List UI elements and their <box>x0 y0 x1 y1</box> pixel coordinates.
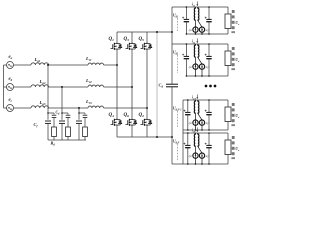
junction top rail to dc link <box>171 31 173 33</box>
svg-text:Uo: Uo <box>235 58 240 63</box>
wire B: Lg2 to node b <box>48 86 88 88</box>
svg-text:(u: (u <box>189 28 192 32</box>
dc bus bottom rail <box>117 136 172 138</box>
module SMN switch circle right <box>198 147 202 153</box>
svg-text:Rd: Rd <box>51 141 56 147</box>
svg-text:Cd: Cd <box>159 83 164 89</box>
wire B: Lr2 to bridge leg2 <box>104 86 132 88</box>
load text block SM2 <box>231 47 235 70</box>
svg-text:(u: (u <box>189 65 192 69</box>
svg-text:(u: (u <box>189 154 192 158</box>
load text block SM1 <box>231 10 235 33</box>
junction mid-bottom <box>156 136 158 138</box>
node b junction <box>61 86 63 88</box>
svg-text:Ud2: Ud2 <box>173 51 179 56</box>
inductor Lg1 <box>31 63 49 65</box>
svg-text:Ud1: Ud1 <box>173 14 179 19</box>
wire: damping branch tee 1 <box>48 112 54 114</box>
module SMN-1 output capacitor <box>208 100 210 112</box>
wire: Rd2 to star rail <box>67 137 69 141</box>
junction dots SM2 <box>186 43 188 45</box>
ellipsis between module groups <box>205 85 208 88</box>
wire: Cf3 to star rail <box>78 123 80 140</box>
svg-text:(u: (u <box>189 121 192 125</box>
svg-text:Q3: Q3 <box>124 37 130 42</box>
module SM2 bottom wire <box>187 75 228 77</box>
module SM1 load resistor R1 <box>227 7 229 14</box>
module SM2 switch circle left <box>194 58 196 64</box>
module SMN load resistor RN <box>227 133 229 140</box>
wire A: Lg1 to node a <box>48 64 88 66</box>
svg-text:u): u) <box>206 121 209 125</box>
module SM1 bottom wire <box>187 33 228 35</box>
module SM2 transformer winding p <box>194 44 195 58</box>
module SM2 load resistor R2 <box>227 44 229 51</box>
module SM2 transformer winding s <box>198 44 199 58</box>
svg-text:Q2: Q2 <box>139 113 145 118</box>
svg-text:u): u) <box>206 154 209 158</box>
wire: damping branch tee 3 <box>79 112 85 114</box>
svg-text:Uo: Uo <box>235 114 240 119</box>
inductor Lg3 <box>31 106 49 108</box>
bridge mid vertical <box>156 32 158 137</box>
module SMN-1 transformer winding p <box>194 100 195 114</box>
load text block SMN-1 <box>231 103 235 126</box>
capacitor Cf2 <box>59 120 65 122</box>
svg-text:ir,N: ir,N <box>192 96 196 101</box>
svg-text:ir1: ir1 <box>192 3 195 8</box>
svg-text:u): u) <box>206 65 209 69</box>
svg-text:Ud,N: Ud,N <box>173 140 180 145</box>
node c junction <box>78 107 80 109</box>
module SMN transformer winding s <box>198 133 199 147</box>
wire A: Lr1 to bridge leg1 <box>104 64 117 66</box>
wire: Rd1 to star rail <box>53 137 55 141</box>
module SMN-1 voltage dashed line UdN-1 <box>176 111 178 127</box>
node a junction <box>47 64 49 66</box>
svg-text:ir2: ir2 <box>192 40 196 45</box>
inductor Lr2 <box>88 85 104 87</box>
module SMN-1 load resistor RN-1 <box>227 100 229 107</box>
module SMN bottom wire <box>172 163 228 165</box>
wire: phase 3 tap down to filter branch <box>78 108 80 120</box>
wire C: Lr3 to bridge leg3 <box>104 107 147 109</box>
wire phase 1 source to Lg1 <box>14 64 31 66</box>
wire leg2 middle <box>131 51 133 118</box>
svg-text:u): u) <box>206 28 209 32</box>
wire: damping branch tee 2 <box>62 112 68 114</box>
svg-text:ec: ec <box>9 98 13 103</box>
svg-text:Cd: Cd <box>56 111 61 116</box>
module SM2 switch circle right <box>198 58 202 64</box>
junction bottom rail to dc link <box>171 136 173 138</box>
wire leg1 middle <box>116 51 118 118</box>
wire leg2 bottom <box>131 127 133 137</box>
module SMN-1 bottom wire <box>183 129 228 131</box>
ac source e_b <box>4 84 14 91</box>
wire leg1 bottom <box>116 127 118 137</box>
svg-text:Ud,N-1: Ud,N-1 <box>173 107 182 112</box>
module SMN-1 switch circle left <box>194 114 196 120</box>
ac source e_c <box>4 105 14 112</box>
module SM2 input capacitor C2 <box>185 44 187 56</box>
module SM2 top wire <box>172 43 228 45</box>
left edge rail of lower modules <box>182 100 184 164</box>
neutral bus wire (left vertical) <box>3 65 5 108</box>
svg-text:Q4: Q4 <box>109 113 115 118</box>
module SMN output capacitor <box>208 133 210 145</box>
module SM1 transformer winding p <box>194 7 195 21</box>
module SMN voltage dashed line UdN <box>176 144 178 161</box>
inductor Lg2 <box>31 85 49 87</box>
transistor Q_3 <box>126 42 137 51</box>
svg-text:Q1: Q1 <box>109 37 115 42</box>
star point rail <box>48 139 86 141</box>
inductor Lr1 <box>88 63 104 65</box>
capacitor Cf3 <box>76 120 82 122</box>
dc link rail upper segment <box>171 7 173 84</box>
resistor Rd1 <box>52 127 57 137</box>
wire: Cd3 to Rd3 <box>84 118 86 127</box>
junction leg1 phase A <box>116 64 118 66</box>
module SMN-1 top wire <box>183 99 228 101</box>
module SMN switch circle left <box>194 147 196 153</box>
svg-text:Q5: Q5 <box>139 37 145 42</box>
junction mid-top <box>156 31 158 33</box>
svg-text:Uo: Uo <box>235 147 240 152</box>
svg-text:Q6: Q6 <box>124 113 130 118</box>
tee junction dots <box>47 112 49 114</box>
wire C: Lg3 to node c <box>48 107 88 109</box>
module SM1 switch circle left <box>194 21 196 27</box>
transistor Q_4 <box>111 118 122 127</box>
module SM1 transformer winding s <box>198 7 199 21</box>
junction dots SMN-1 <box>187 99 189 101</box>
wire: phase 2 tap down to filter branch <box>61 87 63 120</box>
resistor Rd2 <box>66 127 71 137</box>
capacitor Cd3 (damping) <box>83 114 88 116</box>
wire leg3 top <box>146 32 148 42</box>
module SM1 top wire <box>172 6 228 8</box>
junction dots SMN <box>187 132 189 134</box>
wire leg3 middle <box>146 51 148 118</box>
module SM2 output capacitor <box>208 44 210 56</box>
capacitor Cd1 (damping) <box>52 114 57 116</box>
svg-text:Lg2: Lg2 <box>39 79 46 85</box>
module SMN-1 input capacitor CN-1 <box>187 100 189 112</box>
module SM1 output capacitor <box>208 7 210 19</box>
module SM1 switch circle right <box>198 21 202 27</box>
svg-text:Cf: Cf <box>34 122 39 128</box>
capacitor Cd (dc link) <box>166 83 178 85</box>
wire: Cd2 to Rd2 <box>67 118 69 127</box>
svg-text:Lr2: Lr2 <box>85 78 92 84</box>
module SMN top wire <box>183 132 228 134</box>
capacitor Cd2 (damping) <box>66 114 71 116</box>
module SM1 input capacitor C1 <box>185 7 187 19</box>
svg-text:eb: eb <box>9 77 13 82</box>
transistor Q_1 <box>111 42 122 51</box>
module SM1 voltage dashed line Ud1 <box>176 18 178 31</box>
svg-text:Uo: Uo <box>235 21 240 26</box>
dc link rail lower segment <box>171 87 173 164</box>
svg-text:irN: irN <box>192 129 196 134</box>
wire: Cf2 to star rail <box>61 123 63 140</box>
module SM2 voltage dashed line Ud2 <box>176 55 178 73</box>
junction leg2 phase B <box>131 86 133 88</box>
wire: phase 1 tap down to filter branch <box>47 65 49 120</box>
wire leg3 bottom <box>146 127 148 137</box>
inductor Lr3 <box>88 106 104 108</box>
resistor Rd3 <box>83 127 88 137</box>
module SMN-1 transformer winding s <box>198 100 199 114</box>
svg-text:ea: ea <box>9 55 13 60</box>
junction dots SM1 <box>186 6 188 8</box>
wire: Cd1 to Rd1 <box>53 118 55 127</box>
ac source e_a <box>4 62 14 69</box>
dc bus top rail <box>117 31 172 33</box>
module SMN-1 switch circle right <box>198 114 202 120</box>
svg-text:Lg3: Lg3 <box>39 100 46 106</box>
svg-text:Lg1: Lg1 <box>34 57 41 63</box>
wire phase 3 source to Lg3 <box>14 107 31 109</box>
module SMN transformer winding p <box>194 133 195 147</box>
transistor Q_6 <box>126 118 137 127</box>
svg-text:Lr3: Lr3 <box>85 99 92 105</box>
wire: Rd3 to star rail <box>84 137 86 141</box>
junction leg3 phase C <box>146 107 148 109</box>
wire: Cf1 to star rail <box>47 123 49 140</box>
wire phase 2 source to Lg2 <box>14 86 31 88</box>
wire leg2 top <box>131 32 133 42</box>
wire leg1 top <box>116 32 118 42</box>
svg-text:Lr1: Lr1 <box>85 56 92 62</box>
transistor Q_2 <box>141 118 152 127</box>
transistor Q_5 <box>141 42 152 51</box>
capacitor Cf1 <box>45 120 51 122</box>
module SMN input capacitor CN <box>187 133 189 145</box>
load text block SMN <box>231 136 235 159</box>
